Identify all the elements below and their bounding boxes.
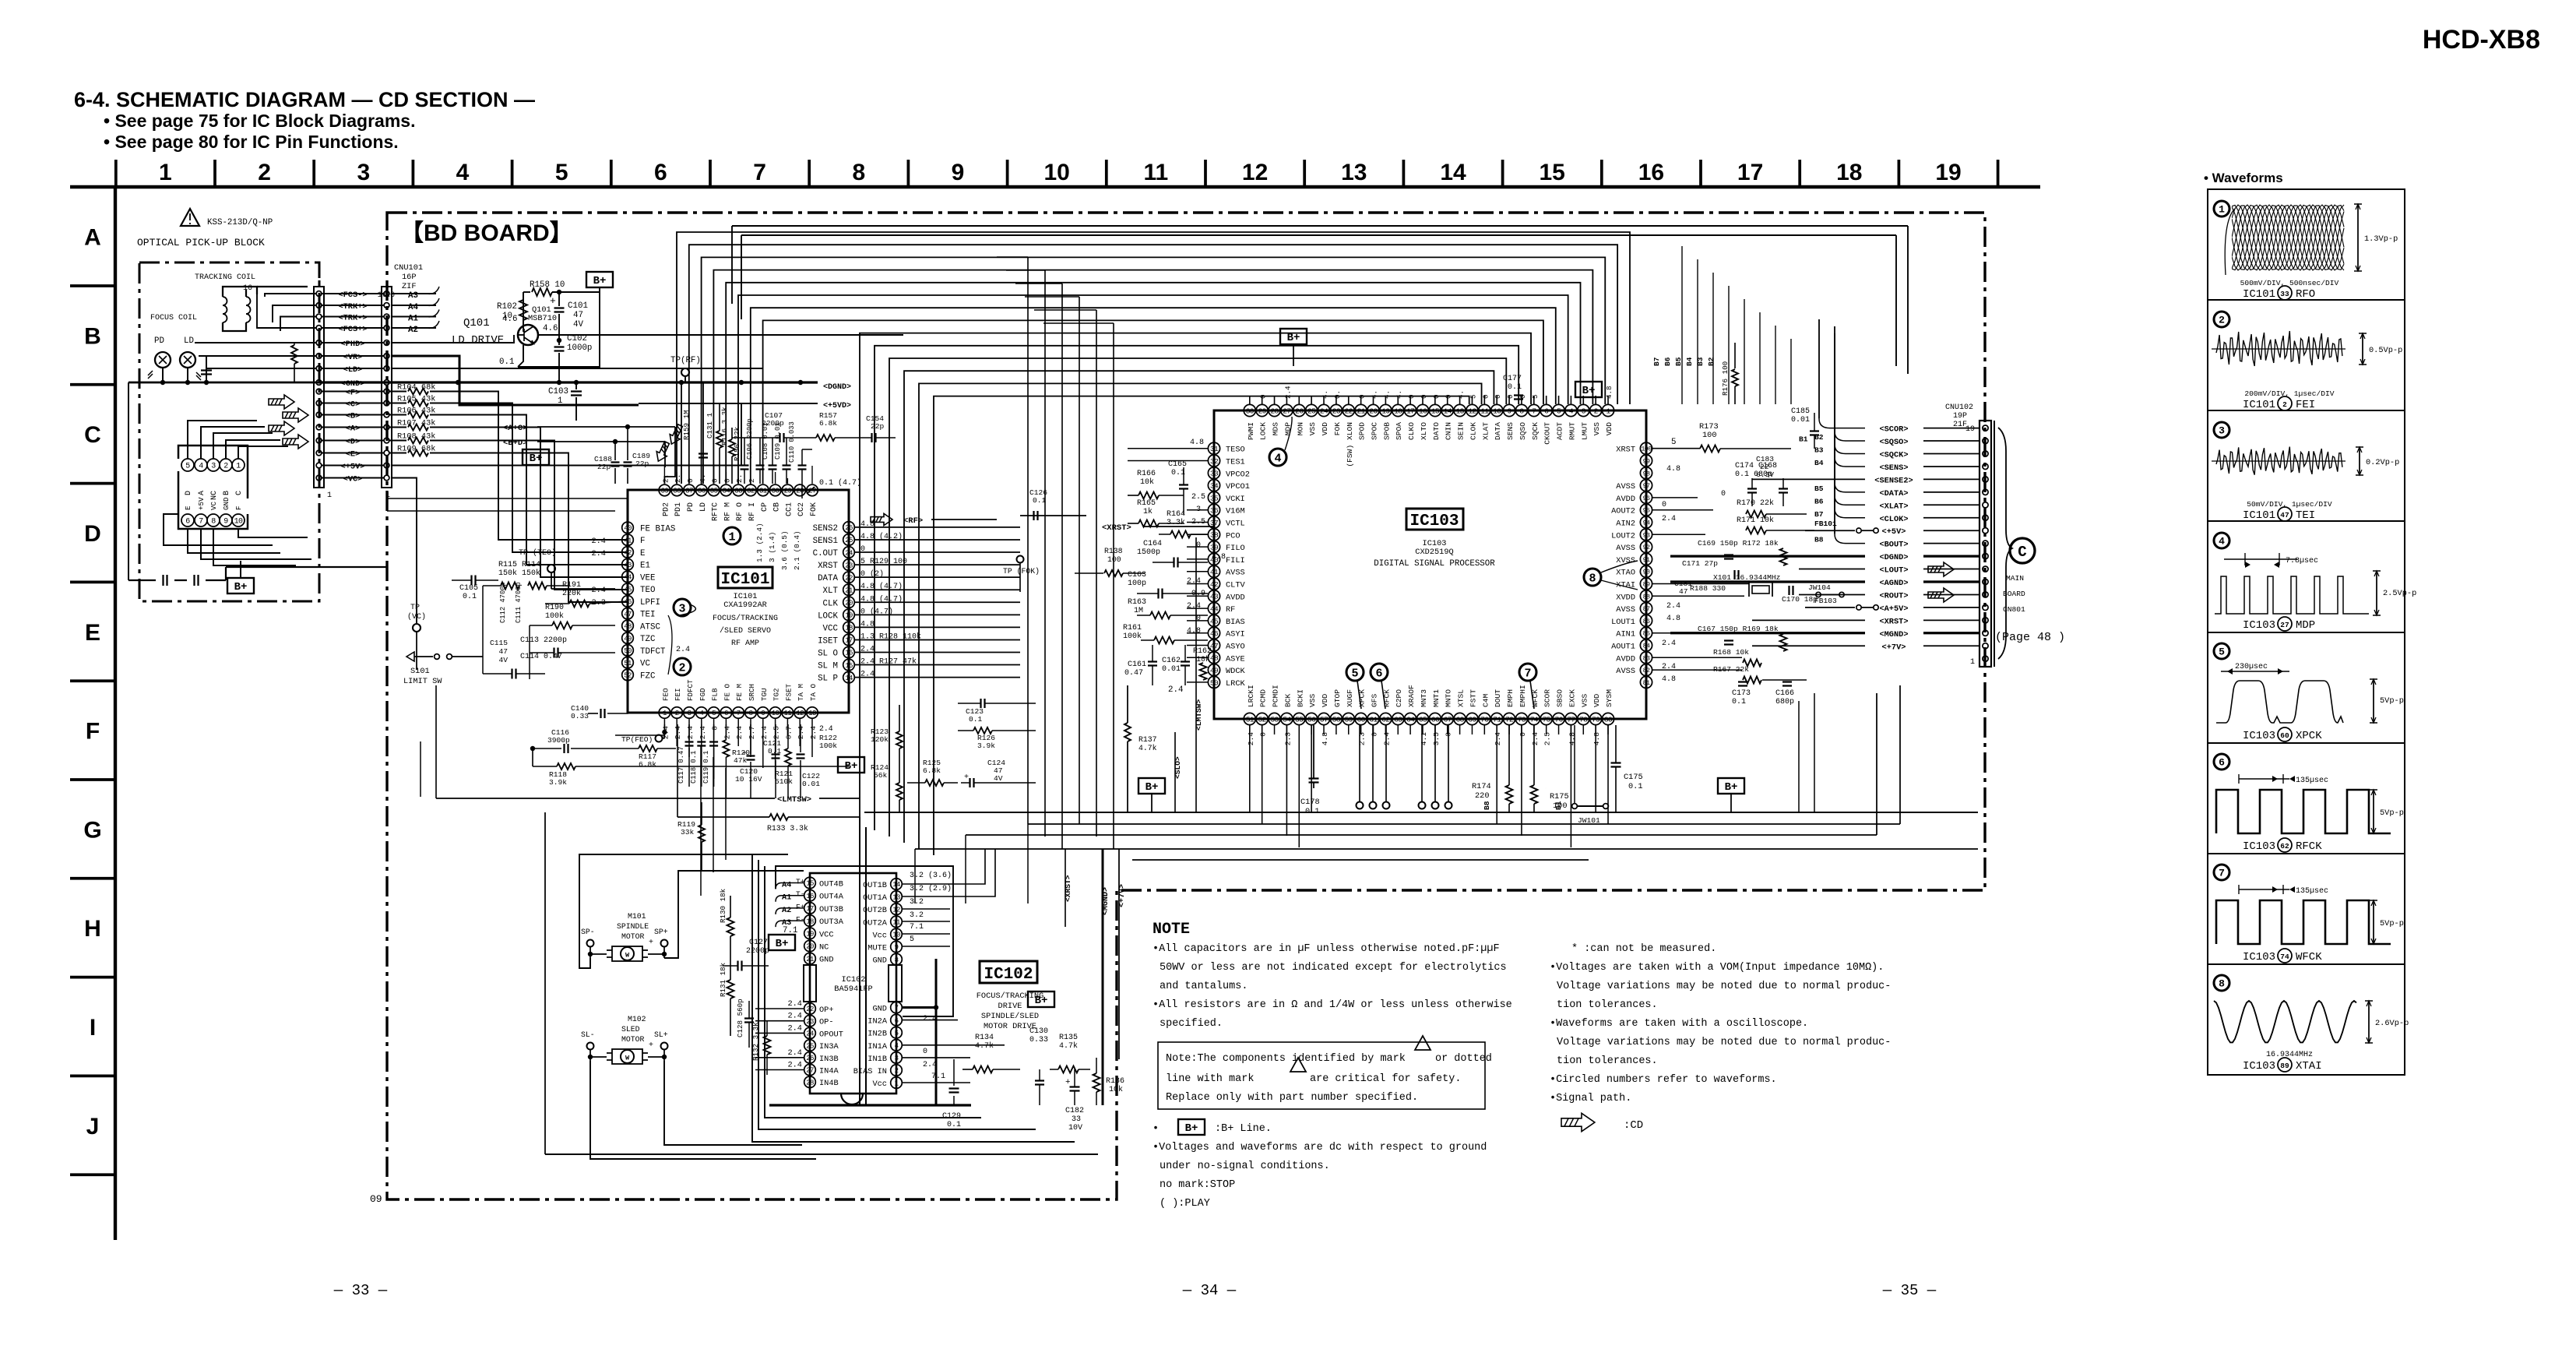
svg-text:2.5: 2.5 (1543, 732, 1552, 746)
svg-text:PD2: PD2 (662, 502, 670, 516)
svg-text:CXA1992AR: CXA1992AR (723, 601, 767, 610)
IC103 pin 8 (1515, 404, 1527, 416)
svg-text:2: 2 (675, 710, 679, 717)
svg-text:0: 0 (686, 478, 695, 483)
IC102 pin 8 (891, 953, 903, 965)
svg-text:2: 2 (2219, 315, 2225, 326)
wire (688, 478, 690, 484)
IC102 outer loop wires (769, 1104, 971, 1106)
CNU102 pin 8 (1983, 566, 1988, 572)
svg-text:13: 13 (808, 710, 816, 717)
svg-text:XTAI: XTAI (2296, 1060, 2322, 1073)
svg-text:RFO: RFO (2296, 288, 2315, 301)
svg-text:CN801: CN801 (2003, 605, 2025, 614)
svg-text:45: 45 (1210, 617, 1219, 625)
svg-text:C103: C103 (548, 387, 568, 396)
IC103 pin 38 (1208, 529, 1219, 541)
svg-text:R165: R165 (1137, 499, 1156, 508)
svg-text:J: J (86, 1114, 100, 1139)
svg-text:•Voltages and waveforms are dc: •Voltages and waveforms are dc with resp… (1153, 1142, 1487, 1154)
svg-text:2.4: 2.4 (686, 726, 695, 740)
svg-text:NC: NC (210, 491, 219, 500)
IC103 pin 72 (1503, 713, 1515, 724)
svg-text:B: B (223, 491, 231, 495)
IC103 pin 90 (1640, 565, 1652, 577)
wire (775, 472, 776, 484)
IC103 pin 100 (1640, 442, 1652, 454)
pin row VC (316, 475, 322, 481)
svg-text:EMPH: EMPH (1506, 689, 1515, 707)
svg-text:12: 12 (892, 906, 900, 914)
svg-text:ASYI: ASYI (1226, 630, 1245, 639)
svg-text:21: 21 (845, 586, 853, 594)
svg-text::CD: :CD (1624, 1119, 1643, 1132)
wire (1759, 312, 1761, 404)
svg-text:RFCK: RFCK (2296, 840, 2322, 853)
svg-text:5: 5 (2219, 646, 2225, 658)
svg-text:12: 12 (1468, 407, 1476, 415)
svg-text:2.4: 2.4 (787, 1023, 802, 1033)
IC103 pin 44 (1208, 603, 1219, 615)
svg-text:53: 53 (1270, 715, 1279, 724)
svg-text:68: 68 (1455, 715, 1464, 724)
svg-text:0: 0 (711, 726, 720, 731)
svg-text:17: 17 (1737, 160, 1763, 185)
svg-text:100: 100 (1641, 446, 1652, 453)
svg-text:D: D (84, 521, 101, 547)
svg-text:MUTE: MUTE (867, 944, 887, 953)
svg-text:TP(FEO): TP(FEO) (621, 735, 653, 744)
coil 1 (223, 297, 227, 305)
wire (965, 835, 966, 903)
svg-text:<E>: <E> (346, 450, 361, 460)
IC103 pin 77 (1565, 713, 1577, 724)
svg-text:37: 37 (1210, 519, 1218, 527)
wire bus (689, 245, 1617, 484)
svg-text:7: 7 (1524, 667, 1531, 680)
svg-text:<DGND>: <DGND> (823, 383, 851, 392)
svg-text:4.: 4. (1457, 390, 1466, 399)
svg-text:FZC: FZC (640, 671, 656, 681)
CNU102 pin 17 (1983, 451, 1988, 456)
svg-text:B4: B4 (1685, 357, 1694, 366)
svg-text:0.47: 0.47 (1124, 669, 1143, 678)
svg-text:A4: A4 (408, 303, 418, 312)
svg-text:PCMD: PCMD (1259, 689, 1268, 707)
svg-text:C119 0.1: C119 0.1 (702, 751, 710, 784)
svg-text:C101: C101 (568, 301, 588, 311)
svg-text:OUT2B: OUT2B (863, 906, 887, 915)
wire (688, 719, 690, 757)
IC103 pin 60 (1355, 713, 1367, 724)
svg-text:F+: F+ (796, 903, 805, 911)
svg-text:2.5: 2.5 (1191, 518, 1205, 527)
svg-text:IC101: IC101 (2243, 509, 2275, 522)
CNU102 pin 10 (1983, 541, 1988, 546)
svg-text:LOCK: LOCK (818, 611, 838, 621)
wire (1570, 725, 1571, 847)
svg-text:AVSS: AVSS (1616, 605, 1635, 615)
svg-text:15: 15 (1431, 407, 1440, 415)
svg-text:FSET: FSET (784, 683, 793, 701)
IC103 pin 84 (1640, 639, 1652, 651)
svg-text:0.01: 0.01 (802, 780, 820, 788)
svg-text:•Signal path.: •Signal path. (1550, 1093, 1631, 1104)
svg-text:2.4: 2.4 (787, 999, 802, 1009)
svg-text:FILO: FILO (1226, 544, 1245, 553)
svg-text:VSS: VSS (1580, 693, 1589, 707)
svg-text:91: 91 (1643, 556, 1650, 564)
svg-text:C117 0.47: C117 0.47 (677, 746, 685, 784)
DGND rail (318, 381, 818, 383)
IC102 pin 17 (804, 903, 816, 914)
IC103 pin 25 (1306, 404, 1318, 416)
IC103 pin 9 (1503, 404, 1515, 416)
svg-text:T+: T+ (796, 878, 805, 886)
svg-text:44: 44 (624, 574, 632, 582)
svg-text:2200p: 2200p (762, 419, 784, 428)
svg-text:LD: LD (184, 336, 194, 346)
IC102 pin 1 (891, 1077, 903, 1089)
wire bus (763, 320, 1543, 484)
IC102 pin 16 (804, 889, 816, 901)
svg-text:<MGND>: <MGND> (1879, 630, 1908, 639)
svg-text:Note:The components identified: Note:The components identified by mark (1166, 1053, 1406, 1065)
svg-text:<A>: <A> (346, 424, 361, 434)
B+ box top right (1575, 382, 1602, 397)
svg-text:VDD: VDD (1605, 422, 1614, 436)
svg-text:86: 86 (1643, 618, 1650, 625)
svg-text:74: 74 (2280, 953, 2289, 961)
svg-text:2.: 2. (735, 474, 744, 483)
svg-text:C182: C182 (1065, 1107, 1084, 1115)
B+ box above IC103 (1280, 329, 1307, 344)
svg-text:EXCK: EXCK (1568, 689, 1576, 707)
svg-text:41: 41 (624, 537, 632, 544)
IC101 pin 1 (659, 707, 670, 719)
svg-text:FOK: FOK (1333, 422, 1342, 436)
IC103 pin 48 (1208, 652, 1219, 664)
IC103 pin 80 (1602, 713, 1614, 724)
pin row GND (316, 380, 322, 386)
svg-text:47: 47 (573, 311, 583, 320)
svg-text:<LD>: <LD> (343, 365, 363, 375)
IC101 pin 22 (843, 572, 855, 583)
svg-text:ZIF: ZIF (402, 282, 417, 291)
waveform 7 WFCK (2214, 865, 2229, 880)
svg-text:FLB: FLB (711, 688, 720, 701)
IC103 pin 61 (1367, 713, 1379, 724)
svg-text:* :can not be measured.: * :can not be measured. (1571, 943, 1716, 955)
svg-text:<VR>: <VR> (343, 353, 363, 362)
svg-text:AIN1: AIN1 (1616, 630, 1635, 639)
IC103 pin 88 (1640, 590, 1652, 602)
svg-text:FE BIAS: FE BIAS (640, 524, 675, 534)
svg-text:IN3A: IN3A (819, 1042, 839, 1051)
svg-text:18: 18 (1836, 160, 1862, 185)
svg-text:2.4: 2.4 (735, 726, 744, 740)
wire (1262, 725, 1263, 824)
svg-text:IC103: IC103 (1409, 512, 1459, 530)
svg-text:OP+: OP+ (819, 1006, 834, 1015)
IC103 pin 3 (1578, 404, 1589, 416)
svg-text:1: 1 (327, 491, 332, 500)
svg-text:<LMTSW>: <LMTSW> (777, 795, 811, 805)
svg-text:55: 55 (1295, 715, 1304, 724)
svg-text:C173: C173 (1732, 689, 1751, 698)
svg-text:1: 1 (1606, 407, 1610, 415)
svg-text:AVSS: AVSS (1616, 667, 1635, 676)
IC101 pin 29 (782, 484, 794, 496)
svg-text:500mV/DIV, 500nsec/DIV: 500mV/DIV, 500nsec/DIV (2240, 279, 2339, 287)
svg-text:4.8: 4.8 (1605, 386, 1614, 399)
B+ below IC101 (838, 757, 864, 773)
svg-text:<SENS>: <SENS> (1879, 463, 1908, 473)
svg-text:0.01: 0.01 (1791, 416, 1810, 424)
svg-text:0: 0 (711, 478, 720, 483)
IC103 pin 97 (1640, 480, 1652, 491)
svg-text:RMUT: RMUT (1568, 422, 1576, 440)
pin row TRK+ (316, 303, 322, 308)
svg-text:<DATA>: <DATA> (1879, 489, 1908, 498)
svg-text:2.7: 2.7 (748, 726, 756, 739)
svg-text:0: 0 (1662, 501, 1666, 509)
IC101 pin 26 (843, 522, 855, 534)
svg-text:60: 60 (2280, 731, 2289, 740)
svg-text:F: F (640, 537, 645, 546)
IC101 pin 12 (794, 707, 806, 719)
svg-text:C185: C185 (1791, 407, 1810, 416)
svg-text:H: H (84, 916, 101, 942)
svg-text:LD: LD (699, 502, 708, 512)
svg-text:B+: B+ (593, 275, 607, 287)
svg-text:•Circled numbers refer to wave: •Circled numbers refer to waveforms. (1550, 1074, 1777, 1086)
wire (713, 466, 715, 484)
IC103 pin 58 (1330, 713, 1342, 724)
svg-text:OUT4B: OUT4B (819, 880, 843, 889)
svg-text:50: 50 (1210, 678, 1219, 687)
svg-text:19: 19 (806, 931, 814, 939)
wire (775, 719, 776, 779)
waveform 3 TEI (2214, 422, 2229, 438)
svg-text:49: 49 (624, 635, 632, 643)
svg-text:25: 25 (1307, 407, 1316, 415)
svg-text:19: 19 (845, 612, 853, 620)
svg-text:24: 24 (845, 549, 853, 557)
svg-text:2200p: 2200p (746, 947, 769, 956)
svg-text:LOCK: LOCK (1259, 422, 1268, 440)
IC103 pin 14 (1441, 404, 1453, 416)
IC101 pin 32 (745, 484, 757, 496)
CNU102 pin 5 (1983, 604, 1988, 610)
svg-text:or dotted: or dotted (1435, 1053, 1492, 1065)
svg-text:TEI: TEI (640, 611, 655, 620)
svg-text:4.: 4. (1321, 390, 1329, 399)
svg-text:69: 69 (1468, 715, 1476, 724)
svg-text:OUT2A: OUT2A (863, 918, 888, 928)
svg-text:56k: 56k (874, 771, 888, 780)
IC103 pin 82 (1640, 664, 1652, 676)
IC102 pin 27 (804, 1064, 816, 1076)
IC103 pin 52 (1256, 713, 1268, 724)
svg-text:4: 4 (2219, 536, 2225, 548)
svg-text:59: 59 (1345, 715, 1353, 724)
svg-text:R170 22k: R170 22k (1737, 498, 1774, 508)
svg-text:8: 8 (749, 710, 753, 717)
svg-text:10: 10 (772, 710, 779, 717)
svg-text:A1: A1 (782, 893, 791, 903)
IC101 pin 51 (622, 657, 634, 668)
svg-text:5Vp-p: 5Vp-p (2380, 808, 2404, 818)
svg-text:<GND>: <GND> (341, 379, 365, 389)
svg-text:1: 1 (728, 530, 735, 544)
IC103 pin 54 (1281, 713, 1293, 724)
wire (1298, 725, 1300, 847)
IC101 pin 4 (696, 707, 708, 719)
IC101 pin 5 (708, 707, 720, 719)
svg-text:1: 1 (663, 710, 667, 717)
svg-text:IN2B: IN2B (867, 1030, 887, 1039)
IC102 label (980, 961, 1037, 983)
svg-text:26: 26 (806, 1055, 814, 1062)
svg-text:MNTO: MNTO (1445, 689, 1453, 707)
svg-text:40: 40 (624, 525, 632, 533)
svg-text:C110 0.033: C110 0.033 (788, 421, 796, 463)
svg-text:R137: R137 (1138, 735, 1157, 744)
svg-text:SPOA: SPOA (1395, 422, 1403, 440)
IC103 pin 13 (1454, 404, 1466, 416)
svg-text:4: 4 (1274, 452, 1281, 465)
svg-text:97: 97 (1643, 482, 1650, 490)
svg-text:64: 64 (1406, 715, 1415, 724)
svg-text:2.4: 2.4 (760, 726, 769, 740)
svg-text:<TRK+>: <TRK+> (338, 302, 367, 312)
svg-text:230µsec: 230µsec (2235, 663, 2268, 671)
svg-text:46: 46 (1210, 629, 1219, 638)
IC102 pin 25 (804, 1040, 816, 1051)
svg-text:C164: C164 (1143, 540, 1162, 548)
svg-text:FEI: FEI (2296, 399, 2315, 411)
wire (811, 466, 813, 484)
wire (701, 719, 702, 768)
svg-text:VCKI: VCKI (1226, 495, 1245, 504)
svg-text:R136: R136 (1106, 1077, 1124, 1086)
svg-text:PD: PD (687, 502, 695, 512)
svg-text:C129: C129 (942, 1112, 961, 1121)
svg-text:3: 3 (688, 710, 692, 717)
svg-text:are critical for safety.: are critical for safety. (1310, 1073, 1461, 1085)
svg-text:<SENSE2>: <SENSE2> (1874, 476, 1913, 485)
wire bus (702, 257, 1606, 484)
IC101 pin 18 (843, 622, 855, 633)
svg-text:<B+D>: <B+D> (503, 439, 528, 448)
svg-text:21: 21 (806, 956, 814, 963)
IC103 pin 66 (1429, 713, 1441, 724)
svg-text:E: E (184, 505, 192, 510)
svg-text:99: 99 (1643, 458, 1650, 466)
svg-text:2.4: 2.4 (1666, 602, 1680, 611)
svg-text:IN1A: IN1A (867, 1042, 888, 1051)
svg-text:FE O: FE O (723, 683, 731, 701)
svg-text:TGU: TGU (760, 688, 769, 701)
IC102 pin 2 (891, 1065, 903, 1076)
svg-text:16: 16 (385, 291, 395, 300)
svg-text:2: 2 (1594, 407, 1599, 415)
wire vertical (1096, 310, 1097, 837)
svg-text:VPCO1: VPCO1 (1226, 482, 1250, 491)
svg-text:B6: B6 (1663, 357, 1672, 366)
IC103 pin 65 (1416, 713, 1428, 724)
svg-text:R168 10k: R168 10k (1713, 648, 1749, 657)
svg-text:66: 66 (1431, 715, 1440, 724)
svg-text:tion tolerances.: tion tolerances. (1557, 999, 1658, 1011)
CNU102 pin 9 (1983, 554, 1988, 559)
pin row C (316, 400, 322, 406)
svg-text:FE M: FE M (735, 684, 744, 701)
svg-text:12: 12 (1242, 160, 1268, 185)
svg-text:680p: 680p (1775, 698, 1794, 706)
svg-text:2: 2 (678, 661, 685, 674)
svg-text:0.7: 0.7 (784, 726, 793, 739)
svg-text:<XRST>: <XRST> (1102, 523, 1131, 533)
svg-text:1: 1 (159, 160, 172, 185)
svg-text:and tantalums.: and tantalums. (1160, 981, 1248, 992)
svg-text:11: 11 (784, 710, 792, 717)
svg-text:5: 5 (555, 160, 568, 185)
svg-text:75: 75 (1543, 715, 1551, 724)
wire (799, 484, 801, 484)
IC103 pin 2 (1590, 404, 1602, 416)
DSP IC103 body (1214, 410, 1646, 719)
IC101 pin 36 (696, 484, 708, 496)
svg-text:10 16V: 10 16V (735, 775, 762, 784)
svg-text:<A+5V>: <A+5V> (1879, 604, 1908, 614)
IC103 pin 47 (1208, 639, 1219, 651)
IC103 pin 37 (1208, 516, 1219, 528)
svg-text:2.: 2. (674, 474, 682, 483)
svg-text:R166: R166 (1137, 470, 1156, 478)
svg-text:16: 16 (243, 284, 252, 293)
svg-text:100p: 100p (1128, 579, 1146, 588)
svg-text:CB: CB (773, 502, 782, 512)
wire (762, 466, 764, 484)
svg-text:7: 7 (737, 710, 741, 717)
IC102 pin 19 (804, 928, 816, 939)
IC103 pin 20 (1367, 404, 1379, 416)
wire (811, 719, 813, 757)
svg-text:X101 16.9344MHz: X101 16.9344MHz (1713, 573, 1780, 582)
svg-text:ATSC: ATSC (640, 622, 660, 632)
svg-text:9: 9 (223, 518, 228, 527)
svg-text:R164: R164 (1167, 510, 1185, 519)
top ruler (70, 185, 2040, 188)
wire bus (889, 358, 1506, 837)
CD legend arrow (1561, 1113, 1595, 1131)
svg-text:6-4. SCHEMATIC DIAGRAM — CD SE: 6-4. SCHEMATIC DIAGRAM — CD SECTION — (74, 88, 535, 111)
svg-text:B2: B2 (1707, 357, 1716, 366)
svg-text:SRCH: SRCH (748, 684, 756, 701)
CNU102 pin 14 (1983, 489, 1988, 495)
svg-text:C162: C162 (1162, 657, 1181, 665)
svg-text:2.1 (0.4): 2.1 (0.4) (793, 530, 801, 570)
IC103 pin 95 (1640, 504, 1652, 516)
IC103 pin 96 (1640, 491, 1652, 503)
svg-text:2.4: 2.4 (676, 646, 690, 654)
svg-text:<C>: <C> (346, 400, 361, 410)
svg-text:78: 78 (1579, 715, 1588, 724)
IC103 pin 22 (1343, 404, 1354, 416)
wire (737, 478, 739, 484)
